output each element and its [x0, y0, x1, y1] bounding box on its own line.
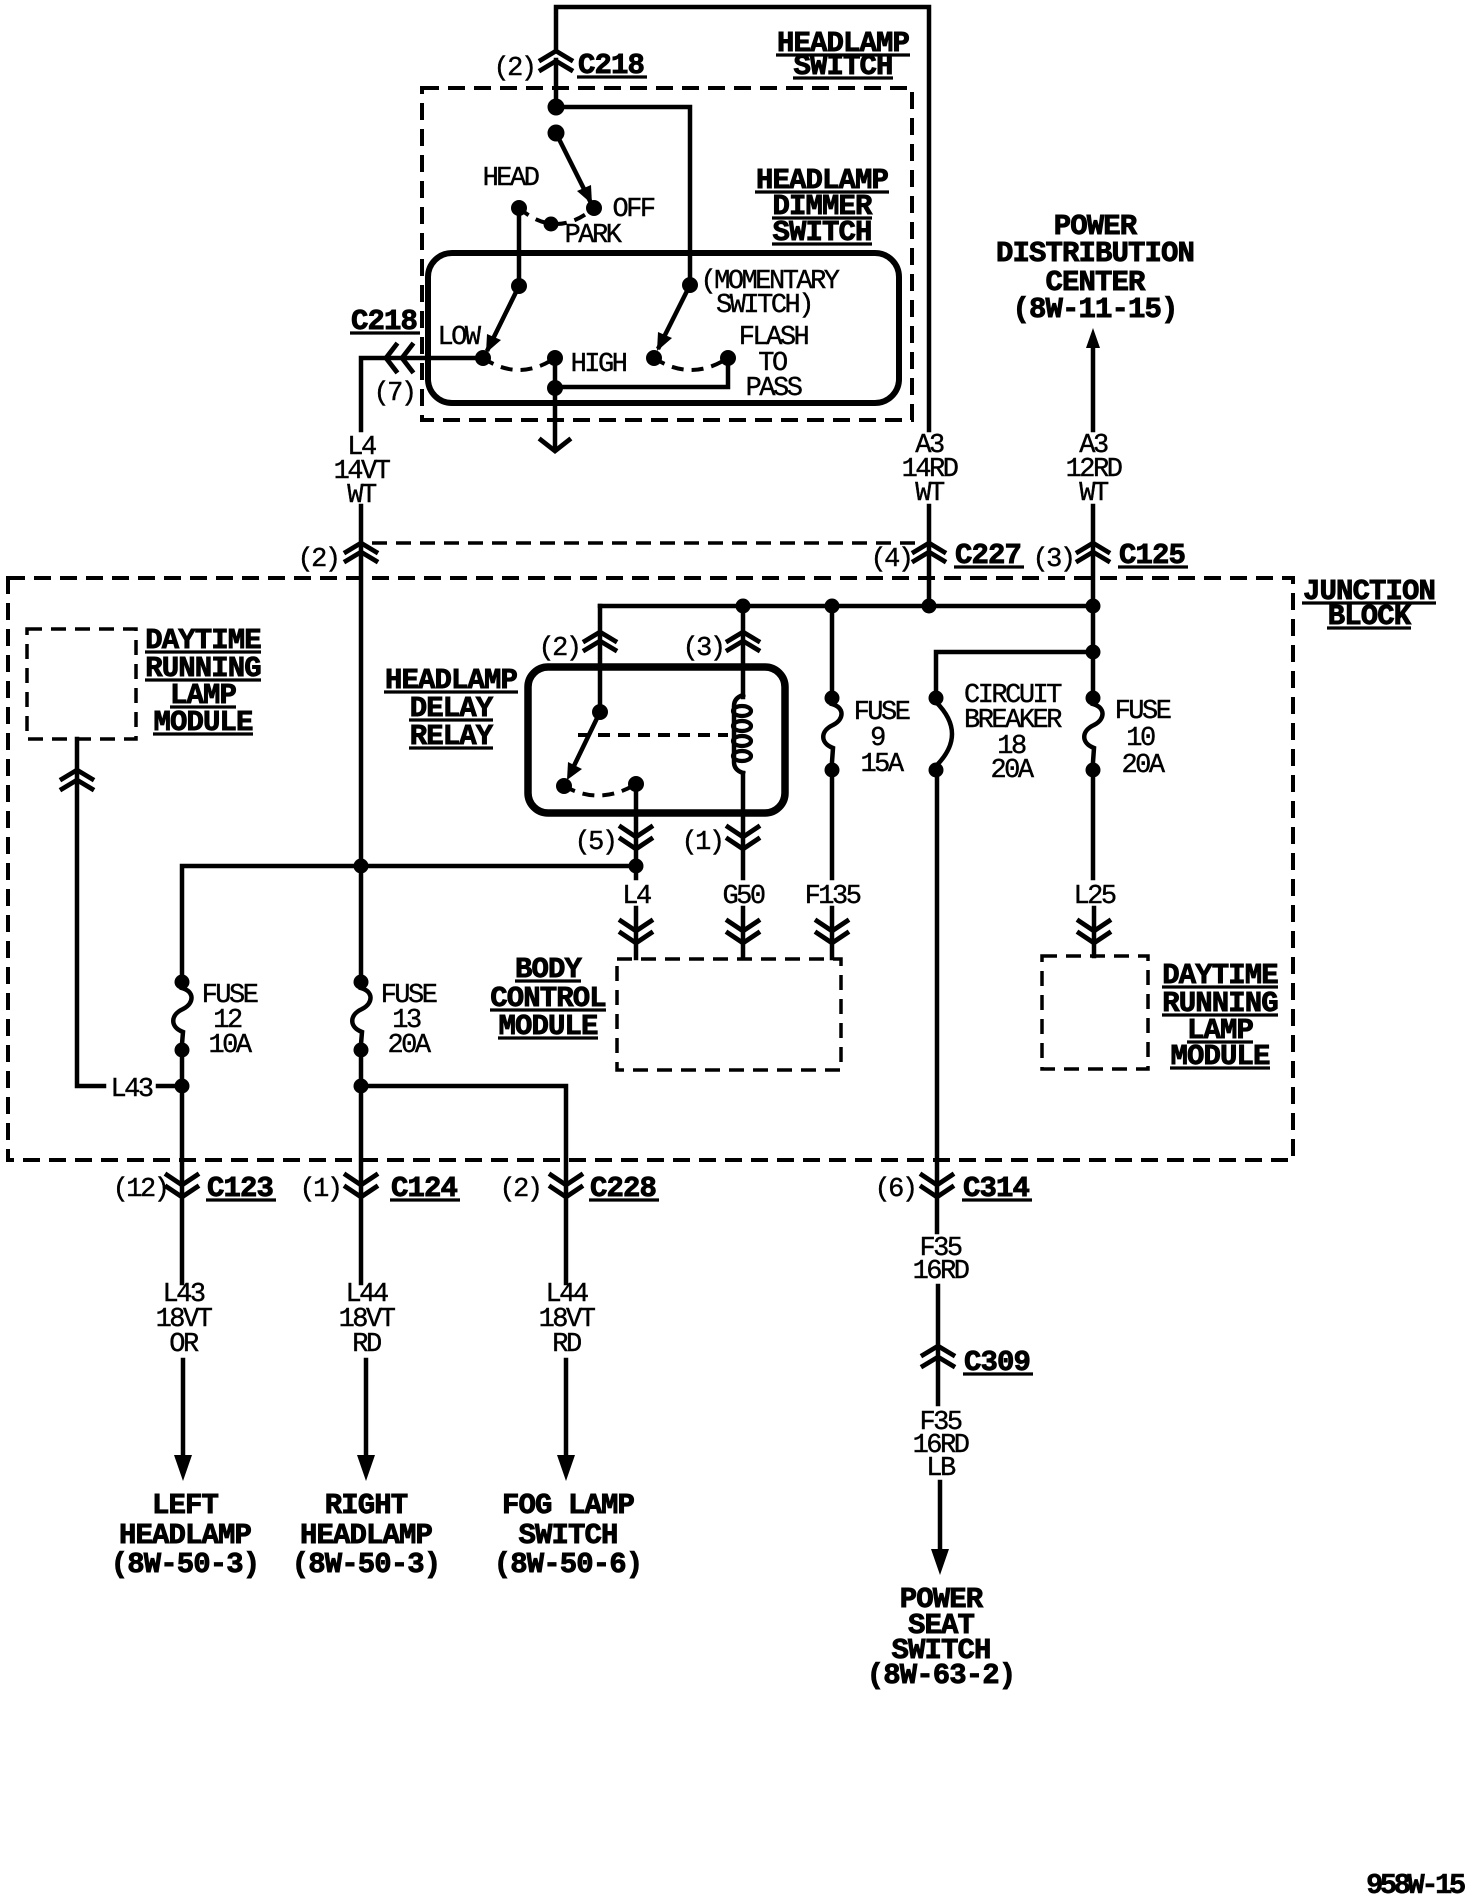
switch arm HEAD/OFF: [556, 133, 592, 204]
relay arm: [567, 712, 600, 780]
svg-text:SWITCH): SWITCH): [716, 291, 812, 321]
label FUSE 12 10A: [202, 981, 258, 1061]
wire relay pin 3 drop: [741, 606, 746, 697]
momentary arm: [657, 285, 690, 351]
svg-text:(3): (3): [682, 634, 723, 664]
node relay contact right: [628, 776, 644, 792]
label FLASH TO PASS: [739, 323, 809, 404]
heading POWER DISTRIBUTION CENTER: [996, 210, 1194, 326]
connector (3) chevrons C125: [1078, 543, 1108, 561]
svg-text:(7): (7): [373, 379, 414, 409]
heading HEADLAMP DIMMER SWITCH: [755, 164, 889, 249]
svg-text:(1): (1): [299, 1175, 340, 1205]
chevrons L25: [1079, 921, 1109, 943]
dashed arc LOW-HIGH: [483, 358, 555, 370]
connector (1) chevrons: [728, 827, 758, 849]
wire branch to C228: [361, 1086, 566, 1283]
svg-text:PARK: PARK: [565, 221, 623, 251]
node flash left contact: [646, 350, 662, 366]
svg-text:RD: RD: [552, 1330, 581, 1360]
svg-text:L43: L43: [110, 1075, 152, 1105]
svg-text:20A: 20A: [387, 1031, 431, 1061]
junction block dashed border: [8, 578, 1293, 1160]
svg-text:(8W-11-15): (8W-11-15): [1012, 293, 1177, 326]
wire L4 through junction block: [359, 506, 364, 982]
svg-text:958W-15: 958W-15: [1366, 1869, 1465, 1898]
label F35 16RD LB: [913, 1408, 969, 1484]
svg-text:(2): (2): [499, 1175, 540, 1205]
connector C309: [923, 1346, 1033, 1379]
svg-text:(8W-50-3): (8W-50-3): [111, 1548, 260, 1581]
wire to right headlamp with arrow: [357, 1360, 375, 1481]
label CIRCUIT BREAKER 18 20A: [964, 681, 1062, 786]
heading HEADLAMP DELAY RELAY: [384, 664, 518, 753]
wire circuit breaker branch: [936, 652, 1093, 698]
wire top feed from headlamp switch: [556, 7, 929, 604]
connector (2) chevrons on L4: [346, 543, 376, 561]
node switch input: [548, 125, 565, 142]
svg-text:(6): (6): [874, 1175, 915, 1205]
node bus F135: [825, 599, 840, 614]
wire L25 into DRL right: [1092, 908, 1097, 956]
wire F135 to BCM: [830, 908, 835, 958]
svg-text:(8W-50-3): (8W-50-3): [292, 1548, 441, 1581]
svg-text:LOW: LOW: [437, 323, 481, 353]
relay coil: [733, 695, 751, 773]
node HEAD: [511, 200, 527, 216]
body control module dashed box: [617, 959, 841, 1070]
node branch junction: [1086, 645, 1101, 660]
svg-text:RIGHT: RIGHT: [325, 1489, 408, 1522]
chevrons G50 into BCM: [728, 921, 758, 943]
chevrons DRL left: [62, 770, 92, 789]
wire HEAD node down into dimmer: [517, 208, 522, 286]
node LOW: [475, 350, 491, 366]
svg-text:(12): (12): [113, 1175, 168, 1205]
wire HIGH output with arrow: [541, 358, 569, 451]
wire relay pin 5: [634, 784, 639, 866]
svg-text:FUSE: FUSE: [1115, 697, 1171, 727]
svg-text:(3): (3): [1032, 545, 1073, 575]
heading JUNCTION BLOCK: [1302, 575, 1436, 633]
node bus G50: [736, 599, 751, 614]
label FUSE 10 20A: [1115, 697, 1171, 781]
fuse 9: [823, 606, 841, 878]
wire horizontal L4 distribution: [182, 866, 636, 982]
dimmer arm to LOW: [486, 286, 519, 353]
svg-text:10: 10: [1126, 724, 1155, 754]
node high wire junction: [547, 380, 563, 396]
node flash right contact: [720, 350, 736, 366]
node OFF: [586, 200, 602, 216]
headlamp delay relay rounded box: [528, 667, 785, 813]
svg-text:LEFT: LEFT: [152, 1489, 219, 1522]
svg-text:HIGH: HIGH: [571, 350, 627, 380]
connector C124: [299, 1172, 460, 1205]
fuse 13: [352, 975, 370, 1284]
heading DAYTIME RUNNING LAMP MODULE left: [145, 624, 261, 739]
dashed arc relay contacts: [564, 784, 636, 796]
connector (2) chevrons relay: [585, 632, 615, 650]
heading FOG LAMP SWITCH: [494, 1489, 643, 1581]
headlamp switch dashed box: [422, 88, 912, 420]
label L43 18VT OR: [156, 1280, 213, 1360]
label L4 14VT WT: [334, 433, 391, 511]
wire pin5 to BCM: [634, 866, 639, 958]
svg-text:(4): (4): [870, 545, 911, 575]
heading RIGHT HEADLAMP: [292, 1489, 441, 1581]
wire to left headlamp with arrow: [174, 1360, 192, 1481]
node fuse 13 out junction: [354, 1079, 369, 1094]
svg-text:LB: LB: [926, 1454, 956, 1484]
label A3 12RD WT: [1066, 431, 1122, 509]
node bus A3-12RD: [1086, 599, 1101, 614]
connector C228: [499, 1172, 659, 1205]
node bus A3-14RD: [922, 599, 937, 614]
connector link dashed line: [372, 541, 918, 545]
wire G50 to BCM: [741, 908, 746, 958]
wire LOW output to left: [361, 358, 483, 430]
svg-text:WT: WT: [915, 479, 945, 509]
connector C218 top chevrons: [541, 51, 571, 70]
node dimmer arm pivot: [511, 278, 527, 294]
wire branch to momentary switch: [556, 107, 690, 285]
label A3 14RD WT: [902, 431, 958, 509]
heading DAYTIME RUNNING LAMP MODULE right: [1162, 959, 1278, 1073]
node relay arm pivot: [592, 704, 608, 720]
circuit breaker 18: [929, 691, 953, 1233]
wire A3 12RD lower: [1091, 506, 1096, 604]
wire flash contact to high wire: [555, 358, 728, 387]
headlamp dimmer switch rounded box: [428, 253, 899, 403]
heading HEADLAMP SWITCH: [776, 27, 910, 83]
svg-text:(2): (2): [297, 545, 338, 575]
svg-text:L4: L4: [622, 882, 651, 912]
svg-text:(2): (2): [493, 54, 534, 84]
wire relay pin 2 drop: [598, 606, 603, 712]
svg-text:20A: 20A: [990, 756, 1034, 786]
connector (4) chevrons C227: [914, 543, 944, 561]
connector (3) chevrons relay: [728, 632, 758, 650]
daytime running lamp module left dashed box: [27, 629, 136, 739]
node junction top of switch: [548, 99, 565, 116]
label FUSE 9 15A: [854, 698, 910, 780]
wire relay pin 1 coil out: [741, 773, 746, 878]
node momentary pivot: [682, 277, 698, 293]
connector C314: [874, 1172, 1032, 1205]
node PARK: [544, 217, 559, 232]
svg-text:G50: G50: [722, 882, 764, 912]
node relay pin5 junction: [629, 859, 644, 874]
svg-text:10A: 10A: [208, 1031, 252, 1061]
dashed arc HEAD-PARK-OFF: [519, 208, 594, 224]
dashed arc momentary contacts: [654, 358, 728, 370]
bus wire in junction block: [600, 604, 1093, 609]
wire between C314 and C309: [936, 1286, 941, 1404]
svg-text:FOG LAMP: FOG LAMP: [502, 1489, 635, 1522]
connector (5) chevrons: [621, 827, 651, 849]
connector C123: [113, 1172, 276, 1205]
label F35 16RD: [913, 1234, 969, 1287]
node L4 vertical crossing: [354, 859, 369, 874]
svg-text:HEAD: HEAD: [483, 164, 539, 194]
svg-text:(8W-50-6): (8W-50-6): [494, 1548, 643, 1581]
svg-text:15A: 15A: [860, 750, 904, 780]
label L44 18VT RD c124: [339, 1280, 396, 1360]
fuse 12: [173, 975, 191, 1284]
fuse 10: [1084, 606, 1102, 878]
svg-text:PASS: PASS: [746, 374, 802, 404]
node L43 junction: [175, 1079, 190, 1094]
node relay contact left: [556, 778, 572, 794]
node HIGH: [547, 350, 563, 366]
daytime running lamp module right dashed box: [1042, 956, 1148, 1069]
wire to power seat switch with arrow: [931, 1482, 949, 1575]
heading LEFT HEADLAMP: [111, 1489, 260, 1581]
chevrons L4 into BCM: [621, 921, 651, 943]
svg-text:(1): (1): [681, 828, 722, 858]
wire to fog lamp switch with arrow: [557, 1360, 575, 1481]
label FUSE 13 20A: [381, 981, 437, 1061]
heading BODY CONTROL MODULE: [490, 953, 606, 1043]
svg-text:OR: OR: [169, 1330, 199, 1360]
wire DRL left output: [77, 739, 182, 1086]
svg-text:(2): (2): [538, 634, 579, 664]
dashed link arm to coil: [578, 733, 728, 737]
svg-text:20A: 20A: [1121, 751, 1165, 781]
heading POWER SEAT SWITCH: [867, 1583, 1016, 1692]
svg-text:(8W-63-2): (8W-63-2): [867, 1659, 1016, 1692]
svg-text:16RD: 16RD: [913, 1257, 969, 1287]
label L44 18VT RD c228: [539, 1280, 596, 1360]
connector C218 left chevrons: [386, 345, 412, 371]
chevrons F135 into BCM: [817, 921, 847, 943]
wire from PDC with up arrow: [1086, 328, 1100, 430]
svg-text:(5): (5): [574, 828, 615, 858]
svg-text:RD: RD: [352, 1330, 381, 1360]
